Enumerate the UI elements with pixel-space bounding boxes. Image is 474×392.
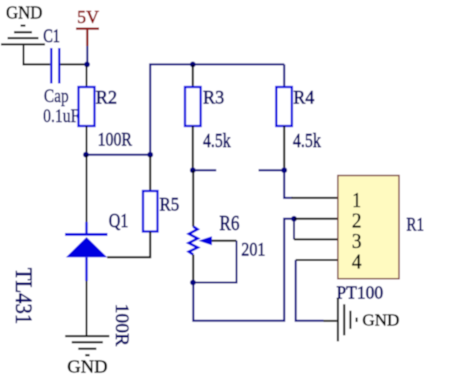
- connector pin 4: [296, 259, 338, 261]
- svg-text:TL431: TL431: [11, 268, 36, 325]
- svg-text:C1: C1: [43, 26, 60, 47]
- ground symbol GND (right, rotated): [338, 298, 357, 341]
- ground symbol GND (bottom-left): [65, 336, 109, 355]
- svg-text:100R: 100R: [98, 130, 133, 151]
- R6 wiper arrow: [198, 236, 212, 245]
- junction node R3 bottom: [190, 167, 196, 173]
- wire pin 4 to ground: [296, 260, 324, 321]
- wire R6 node to connector pins 2,3: [193, 219, 294, 321]
- potentiometer R6: [192, 170, 194, 226]
- wire R4 node to connector pin 1: [284, 170, 292, 198]
- wire R2 bottom to R5 branch: [86, 154, 150, 156]
- svg-text:Cap: Cap: [44, 86, 69, 107]
- junction node 5V/C1/R2: [84, 62, 90, 68]
- svg-text:R1: R1: [406, 214, 424, 235]
- transistor Q1 TL431 shunt regulator: [65, 222, 108, 281]
- svg-text:4: 4: [352, 250, 362, 274]
- connector pin 3: [294, 238, 338, 240]
- resistor R3: [190, 62, 196, 68]
- wire Q1 anode to ground: [86, 281, 88, 335]
- wire feedback riser: [150, 64, 284, 154]
- svg-text:4.5k: 4.5k: [293, 131, 321, 152]
- connector pin 2: [294, 218, 338, 220]
- resistor R5: [149, 156, 151, 191]
- svg-text:GND: GND: [6, 2, 42, 22]
- svg-text:R4: R4: [293, 87, 315, 108]
- junction node R6 bottom: [190, 280, 196, 286]
- capacitor C1: [51, 48, 59, 84]
- power port 5V: [76, 29, 99, 46]
- wire stub right of R3 node: [193, 169, 216, 171]
- C1 right pin wire: [60, 63, 84, 65]
- svg-text:0.1uF: 0.1uF: [43, 106, 79, 127]
- wire R6 wiper to bottom: [212, 240, 237, 242]
- svg-text:R6: R6: [219, 213, 239, 235]
- wire stub left of R4 node: [259, 169, 285, 171]
- svg-text:GND: GND: [362, 310, 399, 329]
- wire from top-left ground to C1: [24, 45, 51, 64]
- junction node R5 top: [147, 152, 153, 158]
- svg-text:4.5k: 4.5k: [203, 131, 231, 152]
- svg-text:R2: R2: [96, 87, 118, 108]
- ground symbol GND (top-left): [1, 26, 45, 45]
- wire R2 node down to Q1 cathode: [86, 155, 88, 222]
- wire pin2 to pin3: [293, 219, 295, 240]
- svg-text:201: 201: [241, 240, 265, 261]
- svg-text:5V: 5V: [77, 7, 99, 27]
- svg-text:Q1: Q1: [109, 211, 129, 232]
- resistor R4: [283, 64, 285, 87]
- junction node pin2: [291, 216, 297, 222]
- svg-text:100R: 100R: [111, 304, 132, 347]
- resistor R2: [86, 66, 88, 87]
- svg-text:R3: R3: [203, 87, 224, 108]
- svg-text:R5: R5: [160, 195, 180, 216]
- svg-text:PT100: PT100: [336, 282, 383, 302]
- junction node R2 bottom: [83, 152, 89, 158]
- wire 5V to node: [86, 46, 88, 62]
- svg-text:GND: GND: [67, 356, 107, 376]
- junction node R4 bottom: [281, 167, 287, 173]
- wire R5 bottom to Q1 reference: [107, 232, 150, 258]
- connector R1 (PT100 header): [338, 176, 399, 279]
